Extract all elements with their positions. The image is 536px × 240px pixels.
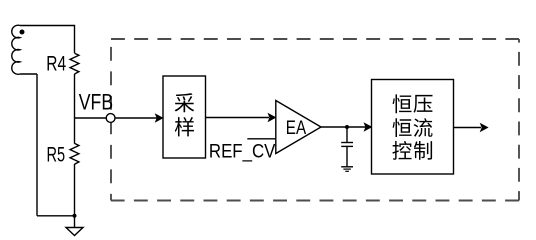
wire: bottom rail bbox=[37, 215, 75, 217]
wire: coil top to R4 top bbox=[20, 26, 75, 54]
capacitor C1 bbox=[346, 127, 348, 143]
junction dot bottom bbox=[73, 214, 77, 218]
wire: R5 bottom to bottom rail bbox=[74, 164, 76, 216]
text 控 bbox=[392, 141, 411, 160]
text 采 bbox=[175, 93, 195, 112]
node VFB (open circle) bbox=[106, 114, 115, 123]
block: CV/CC control bbox=[372, 80, 454, 175]
wire: sampling to EA + arrowhead bbox=[206, 117, 270, 119]
inductor phase dot bbox=[20, 30, 25, 35]
ground (IEC bar style) bbox=[341, 166, 353, 168]
svg-text:REF_CV: REF_CV bbox=[209, 142, 276, 163]
ground symbol (triangle) bbox=[66, 228, 83, 236]
text 压 bbox=[414, 95, 433, 113]
wire: left vertical bbox=[36, 74, 38, 216]
wire: control block output bbox=[454, 127, 482, 129]
wire: REF_CV input bbox=[247, 138, 276, 140]
block: sampling (caiyang) bbox=[163, 76, 206, 158]
svg-text:EA: EA bbox=[286, 118, 306, 139]
text 样 bbox=[175, 117, 194, 136]
wire: node to sampling block bbox=[115, 117, 157, 119]
svg-text:VFB: VFB bbox=[79, 89, 113, 114]
wire: ground stem bbox=[74, 216, 76, 228]
wire: coil bottom horizontal bbox=[20, 73, 37, 75]
text 流 bbox=[414, 118, 433, 137]
resistor R5 bbox=[70, 143, 79, 164]
svg-text:R5: R5 bbox=[47, 143, 66, 166]
text 恒 (line2) bbox=[392, 118, 411, 137]
text 恒 (line1) bbox=[392, 94, 411, 113]
wire: divider tap to node bbox=[75, 117, 107, 119]
wire: EA output to control block bbox=[321, 126, 366, 128]
resistor R4 bbox=[70, 53, 79, 74]
wire: R4 bottom to R5 top bbox=[74, 74, 76, 144]
op-amp EA bbox=[276, 101, 321, 154]
junction dot at capacitor bbox=[345, 125, 349, 129]
svg-text:R4: R4 bbox=[46, 52, 66, 75]
dashed boundary box bbox=[111, 39, 519, 201]
inductor L1 winding bbox=[12, 25, 20, 74]
text 制 bbox=[414, 141, 432, 160]
